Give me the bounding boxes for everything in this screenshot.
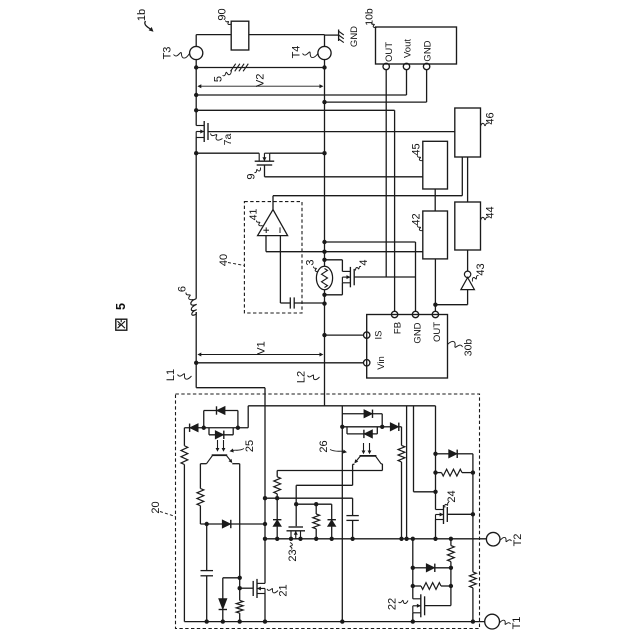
phototransistor 26 base bar <box>360 455 377 457</box>
wire y242 rail B to 30b GND <box>325 241 416 243</box>
wire 26 riser long drop <box>341 427 343 622</box>
wire transformer 90 to T4 top <box>249 34 325 36</box>
label figure character <box>116 319 127 330</box>
svg-text:1b: 1b <box>136 9 148 21</box>
junction g24v-y514 <box>471 512 475 516</box>
svg-text:GND: GND <box>349 26 360 47</box>
svg-text:Vin: Vin <box>376 356 387 370</box>
diode y524 inline <box>222 520 231 528</box>
transistor 9 <box>255 160 275 162</box>
wire box46 left output down <box>461 157 463 196</box>
node railB-y260 <box>322 258 326 262</box>
block 42 box <box>423 211 448 259</box>
wire diode tap <box>223 577 240 579</box>
wire y492 from riser <box>414 491 436 493</box>
resistor left branch <box>181 446 188 465</box>
diode 25-net top <box>217 406 226 414</box>
wire Vin to rail A y363 <box>196 362 363 364</box>
wire gate 24 <box>447 513 473 515</box>
junction 25 loop right <box>236 426 240 430</box>
leader for 20 <box>160 512 176 517</box>
leader for 90 <box>226 21 232 25</box>
phototransistor 25 collector leg <box>207 455 213 464</box>
junction cap-T1rail <box>205 619 209 623</box>
svg-text:43: 43 <box>475 263 487 275</box>
svg-text:26: 26 <box>318 440 330 452</box>
wire top from T3 to transformer 90 <box>196 34 231 36</box>
transistor 24 <box>443 505 445 524</box>
node railB-y335 <box>322 333 326 337</box>
node T3-y68 <box>194 65 198 69</box>
net T2 rail <box>265 538 486 540</box>
junction res277-y498 <box>275 496 279 500</box>
dimension arrow V2 <box>198 85 322 87</box>
junction diode-T1rail <box>221 619 225 623</box>
wire box44 to inverter 43 <box>467 250 469 271</box>
wire rail B tap into box20 <box>324 405 326 407</box>
capacitor in 40 <box>289 297 291 308</box>
wire gate 21 <box>240 587 253 589</box>
terminal T3 <box>190 46 203 59</box>
node railB-y102 <box>322 100 326 104</box>
svg-text:GND: GND <box>423 40 434 61</box>
svg-text:5: 5 <box>114 303 128 310</box>
resistor 26 branch <box>398 445 405 462</box>
rail B lower segment <box>324 290 326 406</box>
leader for T4 <box>303 52 318 58</box>
wire gate23 riser <box>295 485 297 526</box>
diode 22 gate net <box>426 564 435 572</box>
wire mosfet4 source <box>341 283 343 295</box>
diode 26-net right <box>390 423 399 431</box>
node railA-y110 <box>194 108 198 112</box>
block 45 box <box>423 141 448 189</box>
leader for T1 <box>500 620 511 624</box>
node railB-y295 <box>322 293 326 297</box>
leader for 6 <box>186 293 194 300</box>
wire 26 emitter drop <box>352 464 354 485</box>
converter 30b box <box>367 315 448 379</box>
node railA-y153 <box>194 151 198 155</box>
transistor 23 <box>287 530 306 532</box>
resistor 277 branch <box>274 477 281 494</box>
junction v450-y586 <box>449 584 453 588</box>
pin FB of 30b <box>391 311 397 317</box>
wire res316 top <box>315 504 317 514</box>
leader for 7a <box>211 134 223 141</box>
svg-text:GND: GND <box>413 322 424 343</box>
leader for 22 <box>399 600 409 603</box>
phototransistor 25 emitter leg <box>226 455 231 462</box>
wire cap branch drop <box>206 524 208 571</box>
pin OUT of 10b <box>383 63 389 69</box>
svg-text:90: 90 <box>217 8 229 20</box>
wire g24v to T1 rail <box>472 588 474 622</box>
leader for 3 <box>313 267 318 272</box>
wire box45 to box42 <box>434 189 436 211</box>
junction feed26riser-T1 <box>340 619 344 623</box>
node railB-y252 <box>322 250 326 254</box>
junction g24v-T1rail <box>471 619 475 623</box>
svg-text:42: 42 <box>411 213 423 225</box>
transistor 21 <box>256 579 258 598</box>
leader for T2 <box>501 537 512 541</box>
junction res-T1rail <box>238 619 242 623</box>
wire GND pin drop <box>426 70 428 102</box>
svg-text:T3: T3 <box>162 47 174 60</box>
leader arrow for 1b <box>145 21 152 30</box>
svg-text:FB: FB <box>393 322 404 334</box>
diode 26-net lower <box>364 430 373 438</box>
svg-text:24: 24 <box>446 490 458 502</box>
element 5 hatch marks <box>231 64 236 72</box>
svg-text:46: 46 <box>485 112 497 124</box>
junction w406-T2rail <box>404 537 408 541</box>
wire y485 gate23 to 26emitter <box>296 484 352 486</box>
wire mosfet22 to T1 rail <box>412 613 414 622</box>
wire op-amp minus drop <box>279 236 281 303</box>
svg-text:T2: T2 <box>512 534 524 547</box>
junction b22-y586 <box>411 584 415 588</box>
svg-text:V1: V1 <box>256 341 268 354</box>
wire 26 collector drop <box>381 464 383 471</box>
pin GND of 30b <box>412 311 418 317</box>
wire resistor277 bottom <box>276 494 278 520</box>
main feed vertical upper <box>264 406 266 584</box>
leader arrow for 25 <box>233 449 245 451</box>
wire gate24 right vertical <box>472 454 474 572</box>
wire resistor26 to T2 rail <box>401 462 403 539</box>
node railB-y153 <box>322 151 326 155</box>
terminal T1 <box>485 614 500 629</box>
op-amp minus input mark <box>279 227 281 233</box>
svg-text:OUT: OUT <box>384 42 395 62</box>
wire T3 bottom stub <box>195 60 197 68</box>
wire GND feed y102 <box>325 101 427 103</box>
wire res450 bottom <box>450 562 452 606</box>
svg-text:T1: T1 <box>511 617 523 630</box>
block 40 dashed box <box>244 202 302 313</box>
svg-text:5: 5 <box>213 76 225 82</box>
junction m22-T1rail <box>411 619 415 623</box>
wire y568 diode <box>413 567 426 569</box>
op-amp plus input mark <box>263 229 269 231</box>
wire 25 loop right drop <box>237 411 239 428</box>
svg-text:L2: L2 <box>296 371 308 383</box>
wire 26-net node line <box>342 426 382 428</box>
wire box42 to 30b OUT <box>434 259 436 311</box>
wire diode3 to resistor drop <box>399 426 402 428</box>
svg-text:IS: IS <box>374 331 385 340</box>
wire cap branch to T1 rail <box>206 576 208 622</box>
wire branch 22 top <box>412 539 414 599</box>
junction 25 loop left <box>202 426 206 430</box>
lamp 3 filament <box>322 269 328 288</box>
wire 25 loop left drop <box>203 411 205 428</box>
junction inverter-out <box>433 303 437 307</box>
wire op-amp output up <box>272 196 274 210</box>
junction 26 loop left <box>340 425 344 429</box>
net T1 rail <box>184 621 484 623</box>
transistor 7a <box>203 121 205 142</box>
svg-text:30b: 30b <box>463 339 475 357</box>
op-amp 41 triangle <box>258 210 288 236</box>
wire Vout pin drop <box>406 70 408 95</box>
pin GND of 10b <box>423 63 429 69</box>
wire node line T3-T4 at y68 <box>196 67 324 69</box>
junction g24v-y473 <box>471 470 475 474</box>
leader for 43 <box>472 275 478 281</box>
junction y524 main <box>263 522 267 526</box>
component 90 box <box>231 21 249 50</box>
junction m24-T2rail <box>433 537 437 541</box>
junction res450-T2rail <box>449 537 453 541</box>
wire 25 emitter branch <box>239 464 241 578</box>
svg-text:V2: V2 <box>255 74 267 87</box>
wire emitter branch to resistor <box>239 578 241 601</box>
feed wire into box20 <box>264 388 266 406</box>
wire IS to rail B <box>325 334 364 336</box>
junction feed-T1rail <box>263 619 267 623</box>
wire 26-net to diode3 <box>382 426 390 428</box>
pin Vin of 30b <box>364 360 370 366</box>
junction res26-T2rail <box>399 537 403 541</box>
wire 26-net riser <box>341 406 343 427</box>
rail A lower segment <box>195 312 197 363</box>
svg-text:OUT: OUT <box>432 322 443 342</box>
leader for 41 <box>256 221 262 226</box>
wire op-amp output to box46 y196 <box>273 195 462 197</box>
junction w435-y473 <box>433 470 437 474</box>
wire y470 resistor to 26 <box>277 470 382 472</box>
node railB-y303 <box>322 301 326 305</box>
wire 25-net node line <box>184 427 248 429</box>
capacitor 352 branch <box>346 515 358 517</box>
diode 277 branch <box>273 520 281 527</box>
wire Vout feed y95 <box>196 94 406 96</box>
wire 25-net riser <box>247 406 249 428</box>
wire resistor to T1 rail <box>239 613 241 621</box>
resistor 316 branch <box>313 514 320 529</box>
svg-text:Vout: Vout <box>403 39 414 58</box>
leader for 45 <box>417 156 422 161</box>
transistor 22 <box>420 594 422 617</box>
wire T4 bottom stub <box>324 60 326 68</box>
wire T4 top stub <box>324 35 326 47</box>
junction diode277-T2rail <box>275 537 279 541</box>
junction b22-T2rail <box>411 537 415 541</box>
leader for 23 <box>290 543 292 550</box>
wire cap352 top <box>352 498 354 515</box>
svg-text:7a: 7a <box>222 134 234 146</box>
leader for 9 <box>255 168 261 173</box>
wire res450 top <box>450 539 452 546</box>
diode 25 emitter branch <box>219 599 227 610</box>
svg-text:23: 23 <box>287 549 299 561</box>
svg-text:3: 3 <box>305 259 317 265</box>
diode 331 branch <box>328 520 336 527</box>
rail A mid segment <box>195 138 197 299</box>
leader for L1 <box>178 374 192 379</box>
wire 26 loop top <box>342 413 382 415</box>
wire 26 loop right drop <box>381 414 383 427</box>
leader for T3 <box>174 52 190 58</box>
svg-text:T4: T4 <box>291 46 303 59</box>
node railA-y95 <box>194 93 198 97</box>
junction emitter-diode tap <box>238 576 242 580</box>
load 10b box <box>376 27 457 64</box>
wire 25 lower jog <box>208 428 210 435</box>
wire y498 feed to cap <box>265 497 353 499</box>
wire mosfet24 to T2 rail <box>435 520 437 539</box>
wire res316 to T2 rail <box>315 529 317 539</box>
rail B upper segment <box>324 68 326 267</box>
wire diode277 to T2 rail <box>276 526 278 538</box>
wire gate 22 <box>425 605 451 607</box>
inverter 43 bubble <box>464 271 470 277</box>
wire 25 collector branch <box>199 464 201 489</box>
phototransistor 26 collector leg <box>375 456 381 464</box>
junction diode331-T2rail <box>330 537 334 541</box>
wire cap to rail B y303 <box>294 302 324 304</box>
main feed vertical lower <box>264 594 266 622</box>
pin IS of 30b <box>364 332 370 338</box>
svg-text:10b: 10b <box>364 8 376 26</box>
leader for 44 <box>481 217 489 220</box>
wire y504 <box>296 503 332 505</box>
leader arrow for 26 <box>330 450 344 452</box>
node railB-y242 <box>322 240 326 244</box>
phototransistor 26 light arrows <box>363 443 365 453</box>
svg-text:25: 25 <box>244 440 256 452</box>
svg-text:44: 44 <box>485 206 497 218</box>
wire box46 right output to box44 <box>467 157 469 202</box>
svg-text:40: 40 <box>218 254 230 266</box>
diode 24 gate net <box>449 450 458 458</box>
leader for 46 <box>481 123 489 126</box>
leader for 40 <box>228 263 244 266</box>
phototransistor 25 base bar <box>212 454 228 456</box>
junction y504-res316 <box>314 502 318 506</box>
rail A bottom jog <box>195 363 197 388</box>
junction gate23-y504 <box>294 502 298 506</box>
diode 26-net top <box>364 410 373 418</box>
junction feed-y498 <box>263 496 267 500</box>
wire resistor to y524 <box>199 506 201 524</box>
wire riser 413 <box>413 406 415 492</box>
wire W-top right corner down <box>435 406 437 510</box>
inductor 6 <box>191 299 197 316</box>
wire minus to cap <box>280 302 290 304</box>
wire left branch top <box>183 428 185 446</box>
leader for 42 <box>417 226 422 231</box>
leader for 10b <box>371 23 376 28</box>
wire y177 to box 45 <box>265 176 423 178</box>
terminal T2 <box>486 532 500 546</box>
junction feed-T2rail <box>263 537 267 541</box>
block 44 box <box>455 202 481 250</box>
wire T3 top stub <box>195 35 197 47</box>
resistor 24 gate net <box>442 469 463 476</box>
wire FB feed y110 <box>196 109 394 111</box>
wire y524 with diode <box>200 523 222 525</box>
leader for 4 <box>355 266 361 270</box>
diode 25-net left inline <box>190 424 199 432</box>
circuit 20 dashed box <box>176 394 480 629</box>
wire mosfet4 gate y277 <box>354 276 415 278</box>
rail A upper segment <box>195 68 197 126</box>
wire OUT10b vertical <box>385 70 387 277</box>
wire diode to T1 rail <box>222 610 224 622</box>
leader for L2 <box>308 375 320 380</box>
junction res316-T2rail <box>314 537 318 541</box>
node m23 stub right <box>298 537 302 541</box>
wire 26 lower jog <box>346 427 348 434</box>
earth ground GND symbol <box>338 30 340 42</box>
resistor 22 gate net <box>421 583 441 590</box>
wire diode331 to T2 rail <box>331 526 333 538</box>
resistor 450 branch <box>448 546 455 562</box>
wire resistor277 top <box>276 471 278 477</box>
node T4-y68 <box>322 65 326 69</box>
junction b22-y568 <box>411 566 415 570</box>
wire y153 rail A to rail B <box>196 152 259 154</box>
resistor above T1 rail <box>236 600 243 613</box>
svg-text:41: 41 <box>248 209 260 221</box>
diode 25-net lower <box>215 431 224 439</box>
pin Vout of 10b <box>403 63 409 69</box>
leader for 21 <box>267 589 278 593</box>
transistor 4 <box>349 267 351 287</box>
wire cap352 to T2 rail <box>352 520 354 538</box>
junction gate21 tap <box>238 586 242 590</box>
node m23 stub left <box>289 537 293 541</box>
svg-text:9: 9 <box>246 173 258 179</box>
wire W-top y406 <box>248 405 435 407</box>
node railA-y363 <box>194 361 198 365</box>
svg-text:6: 6 <box>177 286 189 292</box>
capacitor 25 branch <box>201 570 214 572</box>
svg-text:22: 22 <box>387 598 399 610</box>
wire y454 diode <box>436 453 449 455</box>
wire left branch bottom <box>183 465 185 622</box>
wire 25 loop top <box>204 410 238 412</box>
junction cap352-T2rail <box>350 537 354 541</box>
phototransistor 25 light arrows <box>217 440 219 450</box>
leader for 30b <box>448 341 463 347</box>
pin OUT of 30b <box>432 311 438 317</box>
lamp 3 circle <box>316 266 332 289</box>
junction w435-y454 <box>433 452 437 456</box>
leader for 5 <box>223 71 232 76</box>
wire gate 7a to box 46 <box>208 131 455 133</box>
wire long drop 406 <box>406 406 408 539</box>
wire op-amp plus drop <box>265 236 267 252</box>
wire FB vertical <box>394 110 396 311</box>
block 46 box <box>455 108 481 157</box>
dimension arrow V1 <box>198 354 322 356</box>
junction w435-y492 <box>433 490 437 494</box>
junction y524 cap branch <box>205 522 209 526</box>
junction v450-y568 <box>449 566 453 570</box>
svg-text:L1: L1 <box>165 369 177 381</box>
svg-text:4: 4 <box>358 259 370 265</box>
svg-text:45: 45 <box>411 143 423 155</box>
resistor below 25 <box>197 489 204 506</box>
wire diode331 top <box>331 504 333 520</box>
inverter 43 triangle <box>461 278 475 290</box>
wire gate 9 drop <box>264 165 266 177</box>
